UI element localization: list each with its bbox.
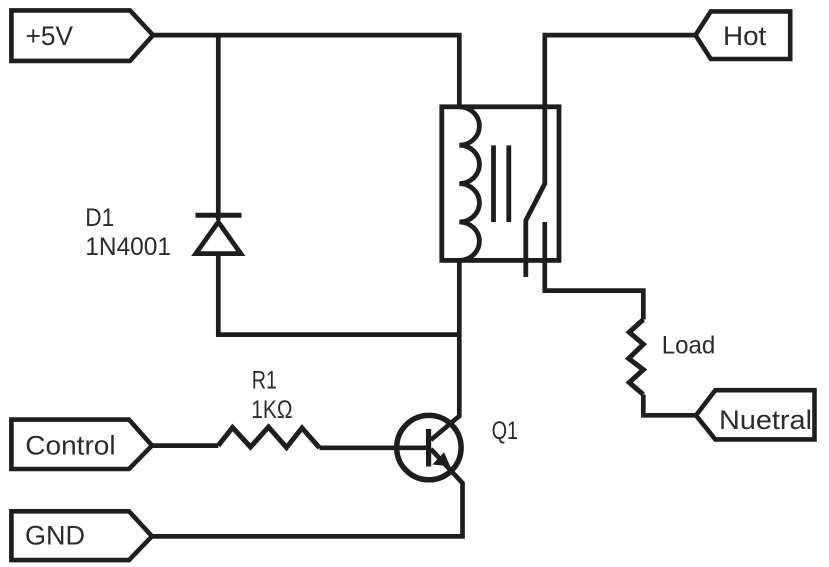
wire emitter to GND bbox=[152, 449, 463, 536]
net flag Hot bbox=[696, 11, 791, 59]
wire load to Nuetral bbox=[643, 395, 696, 416]
relay switch arm bbox=[526, 107, 545, 277]
svg-text:Control: Control bbox=[25, 430, 115, 460]
svg-text:R1: R1 bbox=[252, 367, 277, 395]
wire R1 to base bbox=[320, 445, 427, 450]
wire diode branch from rail bbox=[216, 35, 221, 220]
relay switch fixed contact + wire to load bbox=[545, 222, 644, 320]
svg-text:D1: D1 bbox=[85, 204, 114, 232]
net flag GND bbox=[11, 511, 152, 560]
relay core line 2 bbox=[506, 145, 511, 222]
wire diode anode to collector line bbox=[218, 254, 459, 335]
resistor Load bbox=[629, 320, 644, 395]
svg-text:1KΩ: 1KΩ bbox=[251, 396, 292, 424]
wire Hot branch bbox=[545, 35, 696, 107]
net flag +5V bbox=[11, 10, 153, 61]
svg-text:Load: Load bbox=[662, 331, 716, 359]
svg-text:Nuetral: Nuetral bbox=[719, 405, 812, 435]
svg-text:Q1: Q1 bbox=[492, 417, 518, 445]
svg-text:1N4001: 1N4001 bbox=[85, 233, 171, 261]
transistor Q1 bbox=[397, 415, 461, 479]
svg-text:Hot: Hot bbox=[723, 21, 767, 51]
relay core line 1 bbox=[491, 145, 496, 222]
wire Control to R1 bbox=[152, 443, 218, 448]
svg-text:GND: GND bbox=[25, 520, 85, 550]
wire +5V rail bbox=[153, 35, 459, 107]
wire coil bottom to collector bbox=[431, 260, 460, 440]
resistor R1 bbox=[218, 427, 319, 448]
relay coil bbox=[459, 107, 479, 261]
net flag Control bbox=[11, 420, 152, 469]
diode D1 bbox=[196, 215, 242, 253]
svg-text:+5V: +5V bbox=[26, 21, 73, 51]
relay K1 box bbox=[442, 107, 559, 261]
net flag Nuetral bbox=[696, 390, 815, 439]
